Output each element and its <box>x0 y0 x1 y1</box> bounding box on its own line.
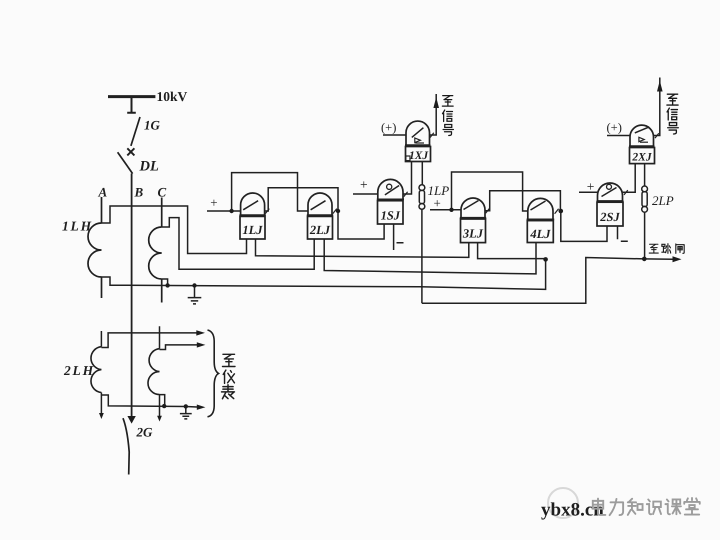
arrow to signal 2 <box>657 81 663 92</box>
svg-text:(+): (+) <box>607 121 622 135</box>
wire trip bus to arrow <box>422 258 673 304</box>
CT 1LH phase A winding <box>88 223 102 277</box>
svg-text:1LJ: 1LJ <box>242 223 263 237</box>
wire CT-C secondary top to 2LJ coil <box>162 218 315 270</box>
svg-text:1SJ: 1SJ <box>381 209 401 223</box>
disconnector 2G blade <box>123 418 129 474</box>
svg-text:A: A <box>98 185 108 200</box>
wire phase A upper <box>101 197 103 298</box>
svg-text:1XJ: 1XJ <box>409 150 429 162</box>
arrow to meters 2 <box>197 342 206 347</box>
wire 4LJ contact junction to 2SJ coil <box>561 211 607 241</box>
wire 2XJ coil to 2LP <box>644 164 646 187</box>
wire plus to 2XJ contact <box>607 135 630 137</box>
svg-text:2G: 2G <box>136 425 154 440</box>
relay 1SJ <box>377 179 408 224</box>
wire 1LJ contact output loop <box>265 188 338 211</box>
relay 2SJ <box>597 183 628 226</box>
relay 2XJ <box>629 125 659 163</box>
relay 3LJ <box>460 198 490 243</box>
wire DC plus to 1LJ contact <box>207 210 241 212</box>
svg-text:2XJ: 2XJ <box>631 151 652 163</box>
wire 2LJ coil to 4LJ coil (C-phase series) <box>324 239 536 274</box>
label to-trip (horizontal) <box>649 244 684 254</box>
wire 3LJ coil to common junction <box>478 243 546 259</box>
node CT-C bottom <box>165 283 169 287</box>
watermark <box>548 488 578 518</box>
relay 1LJ <box>239 193 269 239</box>
svg-text:10kV: 10kV <box>157 89 188 104</box>
arrow phase C end <box>157 416 162 422</box>
arrow to trip <box>673 256 682 262</box>
busbar drop stub <box>127 98 136 113</box>
arrow to signal 1 <box>433 97 439 108</box>
wire 1XJ coil to 1LP <box>421 162 423 185</box>
wire 2LH-C secondary bottom <box>160 395 165 407</box>
svg-text:C: C <box>158 185 167 200</box>
wire 3LJ contact output loop <box>485 191 560 211</box>
svg-text:+: + <box>434 196 441 211</box>
wire plus to 2SJ contact <box>579 191 598 193</box>
node ground lower <box>184 404 188 408</box>
CT 2LH phase A winding <box>91 347 101 393</box>
svg-text:(+): (+) <box>381 121 396 135</box>
wire phase C upper <box>161 198 163 303</box>
wire 2LH-A secondary top to meters <box>101 333 196 348</box>
disconnector 2G arrowhead <box>127 416 135 424</box>
wire parallel loop 1LJ/2LJ contact inputs <box>232 173 308 211</box>
CT 1LH phase C winding <box>149 227 162 279</box>
svg-text:DL: DL <box>139 159 159 175</box>
svg-text:2LP: 2LP <box>652 193 674 208</box>
wire parallel loop 3LJ/4LJ contact inputs <box>452 172 528 211</box>
ground <box>188 286 202 304</box>
svg-text:1LH: 1LH <box>62 219 93 234</box>
node 3LJ plus <box>449 208 453 212</box>
node 1LJ/2LJ output <box>336 209 340 213</box>
node 2LH-C bottom <box>162 404 166 408</box>
svg-text:2LJ: 2LJ <box>309 223 331 237</box>
wire 2SJ coil minus leg <box>618 226 628 241</box>
svg-text:1G: 1G <box>144 118 161 133</box>
wire 2LH common bottom to meters <box>101 395 197 407</box>
ground lower <box>180 407 192 419</box>
wire 1LP to trip bus <box>421 209 423 303</box>
breaker contact cross <box>127 148 134 155</box>
svg-text:ybx8.cn: ybx8.cn <box>541 500 604 521</box>
node ground upper <box>192 283 196 287</box>
relay 2LJ <box>307 193 337 239</box>
svg-text:+: + <box>360 177 368 192</box>
node 3LJ/4LJ output <box>559 209 564 214</box>
arrow to meters 1 <box>196 330 205 335</box>
svg-text:+: + <box>210 195 217 210</box>
wire CT-A secondary top to 1LJ coil <box>102 206 247 254</box>
wire 1SJ coil minus leg <box>394 224 404 250</box>
wire CT-C secondary bottom <box>162 279 168 285</box>
breaker DL blade <box>118 152 133 173</box>
wire CT common return bus <box>102 259 546 289</box>
wire contact junction to 1SJ coil <box>338 211 384 239</box>
node 1LJ plus <box>229 209 233 213</box>
label to-meters (vertical) <box>222 354 235 398</box>
disconnector 1G blade <box>131 117 140 146</box>
svg-text:4LJ: 4LJ <box>529 227 551 241</box>
wire 1LJ coil to 3LJ coil (A-phase series) <box>256 239 469 257</box>
svg-text:3LJ: 3LJ <box>462 227 484 241</box>
svg-text:B: B <box>134 185 144 200</box>
arrow phase A end <box>99 413 104 419</box>
wire 1SJ contact to 1XJ coil <box>403 162 412 195</box>
wire phase A lower <box>100 331 102 414</box>
link 2LP <box>642 186 648 212</box>
wire plus to 1SJ contact <box>353 193 378 195</box>
wire phase C lower <box>159 326 161 417</box>
wire 2LP lower <box>644 212 646 259</box>
link 1LP <box>419 185 425 210</box>
wire 2LH-C secondary top to meters <box>160 345 198 350</box>
wire 2XJ contact to signal <box>654 78 660 136</box>
wire plus to 1XJ contact <box>383 134 406 136</box>
svg-text:+: + <box>587 179 595 194</box>
node trip at 2LP <box>642 257 647 262</box>
CT 2LH phase C winding <box>148 349 160 395</box>
relay 4LJ <box>527 198 559 242</box>
relay 1XJ <box>405 121 434 161</box>
arrow to meters 3 <box>197 405 206 410</box>
brace to meters <box>208 330 219 417</box>
node common at 4LJ <box>543 257 548 262</box>
label to-signal 1 (vertical) <box>442 96 453 136</box>
svg-text:2LH: 2LH <box>63 363 95 378</box>
svg-text:2SJ: 2SJ <box>599 210 620 224</box>
busbar 10kV <box>108 95 155 98</box>
wire 2SJ contact to 2XJ coil <box>623 164 636 193</box>
wire 1XJ contact to signal <box>430 94 437 135</box>
wire DC plus to 3LJ contact <box>430 209 461 211</box>
label to-signal 2 (vertical) <box>667 94 678 134</box>
wire phase B vertical <box>131 174 133 417</box>
